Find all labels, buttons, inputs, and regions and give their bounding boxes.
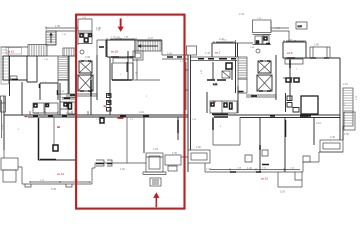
room 40-58 y83-100 — [40, 82, 59, 100]
right exterior stair — [343, 88, 353, 126]
room kv8 — [283, 42, 306, 64]
lobby south wall right — [246, 95, 276, 97]
staircase top flight — [137, 41, 161, 51]
wall near red line — [177, 117, 179, 140]
wall x128 stair west — [127, 51, 129, 80]
grid bubble right — [256, 49, 260, 53]
wc wall and fixtures — [107, 57, 112, 115]
big bottom-left room thick wall — [38, 118, 75, 160]
elevator shaft 3 — [258, 61, 271, 73]
top step right — [271, 21, 289, 42]
svg-text:5.28: 5.28 — [280, 191, 285, 194]
terrace boxes bottom-left — [1, 150, 18, 182]
room kv1 top — [212, 43, 236, 57]
right rooms below — [260, 117, 314, 172]
interior stair upper flight — [63, 48, 75, 56]
dim line above right — [271, 27, 289, 29]
rotated dim texts — [2, 69, 358, 130]
wall x91 — [90, 73, 92, 115]
svg-text:2.48: 2.48 — [330, 136, 335, 139]
lobby east wall — [96, 55, 98, 100]
wall y56 across core — [37, 55, 77, 57]
elevator shaft 1 — [79, 61, 92, 73]
svg-text:1.20: 1.20 — [153, 148, 158, 151]
svg-text:кв.1: кв.1 — [215, 51, 221, 55]
small red ticks — [25, 102, 216, 128]
svg-text:4.88: 4.88 — [96, 27, 101, 30]
red apartment labels — [57, 50, 293, 181]
dim ticks above mid wall — [30, 111, 88, 115]
vertical x54 — [53, 117, 55, 145]
svg-text:2.36: 2.36 — [167, 53, 172, 56]
svg-text:2.10: 2.10 — [343, 83, 348, 86]
main top wall — [106, 39, 162, 41]
left outer wall — [4, 56, 10, 150]
lobby east wall right — [275, 55, 277, 100]
red arrow down — [118, 18, 124, 31]
small box near bottom — [245, 155, 252, 162]
bottom outline left — [18, 163, 95, 187]
svg-text:3.08: 3.08 — [85, 56, 90, 59]
right bottom outline — [205, 152, 343, 187]
top right big room — [283, 58, 340, 116]
right stair lower box — [344, 112, 355, 130]
small dim box top right — [296, 22, 307, 29]
svg-text:кв.1Б: кв.1Б — [111, 50, 118, 54]
svg-text:12.40: 12.40 — [2, 124, 4, 130]
svg-text:5.48: 5.48 — [51, 188, 56, 191]
wall x22 — [21, 82, 23, 115]
entrance porch — [143, 153, 166, 186]
lobby west wall — [68, 56, 70, 94]
top-left small room — [187, 46, 197, 55]
svg-text:1.35: 1.35 — [172, 152, 177, 155]
top-left outer outline — [1, 46, 29, 48]
svg-text:2.90: 2.90 — [314, 44, 319, 47]
box right of porch — [146, 155, 188, 171]
elevator shaft 2 — [78, 75, 93, 91]
left room right section below — [213, 117, 240, 145]
svg-text:2.10: 2.10 — [316, 122, 321, 125]
corridor band west — [191, 57, 238, 61]
corridor band east — [162, 40, 188, 59]
svg-text:1.25: 1.25 — [34, 112, 39, 115]
wall x106 — [105, 40, 107, 57]
rooms below mid wall — [100, 117, 144, 163]
section boundary wall — [188, 55, 191, 172]
bottom outline middle — [95, 160, 146, 166]
svg-text:1.50: 1.50 — [344, 133, 349, 136]
svg-text:4.37: 4.37 — [148, 37, 153, 40]
svg-text:4.88: 4.88 — [275, 27, 280, 30]
middle room right section — [207, 62, 232, 86]
step outline y31 — [46, 31, 77, 45]
mid horizontal wall — [4, 115, 188, 117]
lobby south wall — [66, 94, 97, 96]
svg-text:1.60: 1.60 — [120, 168, 125, 171]
kv15 label box — [6, 48, 22, 55]
interior stair lower flight — [58, 56, 68, 80]
dim line above — [46, 27, 77, 30]
red highlight rectangle — [76, 15, 184, 209]
top box B vents — [78, 30, 101, 45]
svg-text:1.40: 1.40 — [205, 52, 210, 55]
svg-text:2.42: 2.42 — [66, 112, 71, 115]
small rooms above mid wall — [33, 103, 58, 113]
elevator shaft 4 — [257, 75, 272, 91]
room under stair y59-115 — [137, 59, 160, 80]
stair core box — [133, 51, 143, 60]
top profile right section — [236, 40, 254, 43]
svg-text:кв.14: кв.14 — [57, 172, 64, 176]
wall x60 — [59, 83, 61, 115]
outdoor stair treads — [28, 45, 47, 57]
right balcony left — [188, 150, 210, 163]
room below kv1B — [112, 63, 133, 80]
top-left room 1 — [3, 56, 27, 80]
landing right — [238, 79, 247, 93]
bathroom thick-wall room right — [301, 96, 318, 114]
svg-text:кв.10: кв.10 — [261, 177, 268, 181]
small room left of kv1B — [97, 40, 106, 55]
right mid wall — [212, 114, 340, 117]
svg-text:кв.8: кв.8 — [287, 51, 293, 55]
room kv1B — [107, 40, 135, 63]
svg-text:1.98: 1.98 — [55, 25, 60, 28]
left edge protrusion boxes — [1, 96, 6, 112]
landing below stair — [58, 80, 68, 94]
wall x237 — [237, 43, 239, 57]
interior stair right — [238, 57, 247, 79]
extra dim ticks rows — [2, 38, 306, 183]
red arrow up — [153, 192, 159, 207]
svg-text:2.43: 2.43 — [239, 13, 244, 16]
right balcony bottom — [320, 140, 343, 152]
block near red line — [60, 98, 76, 115]
small box protrusion top right — [310, 47, 330, 58]
grid bubble — [80, 50, 84, 54]
top box A — [78, 17, 92, 45]
left exterior stair strip — [1, 47, 9, 84]
svg-text:1.90: 1.90 — [196, 146, 201, 149]
dim strip x186 — [185, 62, 188, 110]
right edge walls — [340, 116, 343, 140]
top-left room 2 — [27, 56, 37, 82]
svg-text:2.10: 2.10 — [139, 111, 144, 114]
right section lower cluster rooms — [207, 86, 238, 113]
top box C vents — [253, 18, 272, 45]
entrance stair box — [46, 31, 56, 45]
